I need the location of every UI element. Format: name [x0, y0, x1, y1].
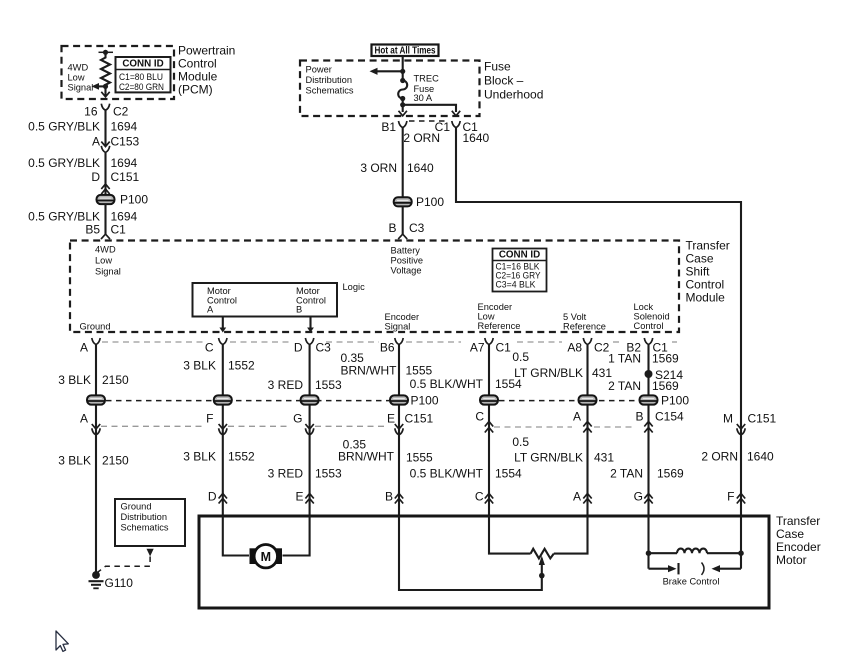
node G C151 (arrow down): [293, 412, 314, 435]
svg-text:1569: 1569: [657, 467, 684, 481]
svg-text:BRN/WHT: BRN/WHT: [338, 450, 395, 464]
Hot at All Times box: [372, 45, 439, 57]
svg-text:F: F: [727, 490, 734, 504]
wire A ground: [95, 345, 97, 573]
pin C entry: [475, 490, 493, 504]
wire: fuse output branch: [399, 99, 461, 116]
label: Battery Positive Voltage: [391, 246, 424, 276]
svg-text:B1: B1: [381, 120, 396, 134]
svg-text:2150: 2150: [102, 373, 129, 387]
svg-text:D: D: [294, 341, 303, 355]
svg-text:A8: A8: [567, 341, 582, 355]
label wire B2: 1 TAN 1569: [608, 352, 679, 366]
svg-text:1554: 1554: [495, 467, 522, 481]
svg-text:Signal: Signal: [95, 267, 121, 277]
wire A8 5 volt reference: [586, 345, 588, 517]
svg-text:Battery: Battery: [391, 246, 421, 256]
fuse TREC 30A: [398, 74, 439, 104]
module dashed box: [70, 241, 679, 333]
wire E to motor: [283, 516, 310, 556]
svg-text:Motor: Motor: [207, 286, 231, 296]
svg-text:16: 16: [84, 105, 98, 119]
CONN ID box (module): C1=16 BLK / C2=16 GRY / C3=4 BLK: [493, 249, 547, 292]
pin G entry: [634, 490, 653, 504]
svg-text:Signal: Signal: [68, 83, 94, 93]
label wire A: 0.5 LT GRN/BLK 431: [512, 435, 614, 465]
node A7 / C1 (encoder low ref pin): [470, 338, 511, 355]
svg-text:0.5 GRY/BLK: 0.5 GRY/BLK: [28, 210, 100, 224]
svg-text:3 RED: 3 RED: [268, 467, 304, 481]
node A (ground pin): [80, 338, 100, 355]
CONN ID box (PCM): C1=80 BLU / C2=80 GRN: [116, 57, 171, 92]
svg-text:G110: G110: [105, 576, 134, 590]
label: Transfer Case Encoder Motor: [776, 514, 821, 567]
ground G110: [89, 571, 134, 590]
svg-text:D: D: [208, 490, 217, 504]
svg-text:3 ORN: 3 ORN: [360, 161, 397, 175]
svg-text:3 BLK: 3 BLK: [183, 450, 216, 464]
resistor R1 (PCM pull-up): [99, 50, 114, 87]
connector C1 (fork): [409, 120, 478, 134]
svg-text:B5: B5: [85, 223, 100, 237]
svg-text:Powertrain: Powertrain: [178, 44, 235, 58]
potentiometer resistor (encoder): [531, 549, 554, 559]
wire F drop: [740, 516, 742, 569]
label wire M: 2 ORN 1640: [701, 450, 774, 464]
svg-text:Schematics: Schematics: [121, 523, 169, 533]
wire: PCM output stub with down arrow: [101, 86, 109, 96]
svg-text:A: A: [80, 341, 88, 355]
svg-text:Control: Control: [178, 57, 217, 71]
svg-text:30 A: 30 A: [414, 93, 433, 103]
svg-text:CONN ID: CONN ID: [122, 59, 163, 70]
svg-text:Block –: Block –: [484, 74, 524, 88]
svg-text:C3: C3: [409, 221, 425, 235]
wire B2 lock solenoid: [647, 345, 649, 517]
grommet P100 wire A8: [579, 395, 597, 404]
svg-text:1694: 1694: [111, 156, 138, 170]
svg-text:Lock: Lock: [634, 302, 654, 312]
label wire D: 3 RED 1553: [268, 378, 342, 392]
svg-text:C151: C151: [405, 412, 434, 426]
svg-text:F: F: [206, 412, 213, 426]
node A C154 (arrow up): [573, 410, 592, 433]
svg-text:A: A: [207, 305, 214, 315]
arrow to power distribution: [370, 68, 403, 75]
svg-text:Module: Module: [686, 291, 726, 305]
label: Encoder Low Reference: [478, 302, 521, 331]
grommet P100 wire B2: [640, 394, 690, 408]
svg-text:B: B: [635, 410, 643, 424]
Powertrain Control Module dashed box: [62, 46, 175, 99]
pin D entry: [208, 490, 227, 504]
svg-text:1553: 1553: [315, 378, 342, 392]
svg-text:Positive: Positive: [391, 256, 424, 266]
svg-text:0.5 BLK/WHT: 0.5 BLK/WHT: [410, 467, 484, 481]
svg-text:C: C: [475, 490, 484, 504]
grommet P100 wire B6: [390, 394, 439, 408]
svg-text:431: 431: [592, 366, 612, 380]
svg-text:C151: C151: [748, 412, 777, 426]
svg-text:0.5 GRY/BLK: 0.5 GRY/BLK: [28, 156, 100, 170]
svg-text:1552: 1552: [228, 450, 255, 464]
svg-text:3 BLK: 3 BLK: [58, 373, 91, 387]
svg-text:Signal: Signal: [385, 322, 411, 332]
svg-text:B6: B6: [380, 341, 395, 355]
svg-text:P100: P100: [120, 193, 148, 207]
svg-text:1553: 1553: [315, 467, 342, 481]
svg-text:A: A: [80, 412, 88, 426]
connector B1 (fork): [381, 120, 407, 134]
svg-text:TREC: TREC: [414, 74, 440, 84]
svg-text:Reference: Reference: [563, 322, 606, 332]
connector face dashed link (gray) C151: [101, 425, 384, 427]
motor M1: [250, 545, 283, 568]
wire 1640 3 ORN (B1 to P100): [360, 128, 434, 198]
label wire G2: 2 TAN 1569: [610, 467, 684, 481]
connector C1 pin B5 (module entry): [101, 234, 110, 239]
svg-text:C2=80 GRN: C2=80 GRN: [119, 82, 164, 92]
brake solenoid coil L1: [646, 549, 744, 556]
svg-text:Distribution: Distribution: [306, 75, 353, 85]
label: 5 Volt Reference: [563, 312, 606, 332]
svg-text:1694: 1694: [111, 120, 138, 134]
svg-text:3 BLK: 3 BLK: [183, 359, 216, 373]
svg-text:Transfer: Transfer: [776, 514, 820, 528]
grommet P100 wire A: [87, 395, 105, 404]
svg-text:C1: C1: [496, 341, 512, 355]
svg-text:1640: 1640: [407, 161, 434, 175]
label: Lock Solenoid Control: [634, 302, 670, 331]
svg-text:Hot at All Times: Hot at All Times: [375, 46, 436, 57]
svg-text:Reference: Reference: [478, 321, 521, 331]
wire B to wiper: [399, 516, 545, 590]
svg-text:1640: 1640: [747, 450, 774, 464]
svg-text:Schematics: Schematics: [306, 86, 354, 96]
svg-text:1569: 1569: [652, 352, 679, 366]
label: Brake Control: [663, 577, 720, 587]
logic box: Motor Control A / B: [193, 283, 338, 317]
svg-text:B: B: [388, 221, 396, 235]
svg-text:Ground: Ground: [121, 502, 152, 512]
harness dashed link P100 right: [489, 400, 649, 402]
svg-text:C1=80 BLU: C1=80 BLU: [119, 72, 163, 82]
connector face dashed link (gray): [102, 341, 677, 343]
svg-text:2 TAN: 2 TAN: [610, 467, 643, 481]
wire M (2 ORN) lower segment: [740, 425, 742, 516]
wire to module pin B C3: [388, 206, 424, 235]
grommet P100 wire D: [301, 395, 319, 404]
label wire C: 3 BLK 1552: [183, 359, 255, 373]
wire D to motor: [223, 516, 249, 556]
label: Power Distribution Schematics: [306, 65, 354, 96]
svg-text:A7: A7: [470, 341, 485, 355]
svg-text:C151: C151: [111, 170, 140, 184]
node F C151 (arrow down): [206, 412, 227, 435]
svg-text:Ground: Ground: [80, 322, 111, 332]
label: 4WD Low Signal (PCM): [68, 63, 94, 93]
svg-text:Control: Control: [686, 278, 725, 292]
reference arrow to ground schematics: [97, 549, 153, 573]
pin B entry: [385, 490, 403, 504]
svg-text:A: A: [92, 135, 100, 149]
svg-text:C3: C3: [316, 341, 332, 355]
svg-text:BRN/WHT: BRN/WHT: [341, 364, 398, 378]
svg-text:C153: C153: [111, 135, 140, 149]
svg-text:Low: Low: [95, 256, 112, 266]
node M C151 (arrow down): [723, 412, 777, 435]
node A C151 (arrow down): [80, 412, 100, 435]
svg-text:Underhood: Underhood: [484, 88, 543, 102]
svg-text:P100: P100: [416, 195, 444, 209]
label wire A7: 0.5 BLK/WHT 1554: [410, 377, 522, 391]
svg-text:Solenoid: Solenoid: [634, 312, 670, 322]
node: signal junction + arrow to 4WD Low Signal: [92, 83, 109, 90]
wire: feed from Hot at All Times: [400, 56, 405, 81]
svg-text:Motor: Motor: [776, 553, 807, 567]
svg-text:2 ORN: 2 ORN: [701, 450, 738, 464]
svg-text:G: G: [293, 412, 302, 426]
Ground Distribution Schematics box: [115, 499, 185, 546]
svg-text:C2: C2: [113, 105, 129, 119]
svg-text:1555: 1555: [406, 451, 433, 465]
label: Ground: [80, 322, 111, 332]
svg-text:1694: 1694: [111, 210, 138, 224]
svg-text:E: E: [387, 412, 395, 426]
label wire A: 3 BLK 2150: [58, 454, 129, 468]
connector C153 pin A (arrow through): [92, 135, 140, 153]
svg-text:CONN ID: CONN ID: [499, 250, 540, 261]
svg-text:Distribution: Distribution: [121, 512, 168, 522]
svg-text:G: G: [634, 490, 643, 504]
Fuse Block dashed box: [300, 61, 480, 117]
wire C to potentiometer: [489, 516, 531, 554]
node A8 / C2 (5V ref pin): [567, 338, 609, 355]
mouse cursor: [56, 631, 68, 651]
label wire A: 3 BLK 2150: [58, 373, 129, 387]
label: Fuse Block - Underhood: [484, 60, 543, 102]
arrow: motor control A output: [219, 317, 226, 333]
svg-text:Low: Low: [478, 312, 495, 322]
svg-text:M: M: [261, 550, 271, 564]
wire 1640 2 ORN (C1 around right side): [403, 128, 741, 426]
wire 1694 GRY/BLK segment 2: [28, 152, 139, 195]
svg-text:LT GRN/BLK: LT GRN/BLK: [514, 366, 583, 380]
node D / C3 (motor control B pin): [294, 338, 331, 355]
svg-text:C154: C154: [655, 410, 684, 424]
label: Logic: [343, 282, 366, 292]
svg-text:1640: 1640: [463, 131, 490, 145]
svg-text:P100: P100: [661, 394, 689, 408]
brake control contacts: [649, 563, 742, 575]
label wire A8: 0.5 LT GRN/BLK 431: [512, 350, 612, 380]
label wire F: 3 BLK 1552: [183, 450, 255, 464]
svg-text:Voltage: Voltage: [391, 266, 422, 276]
svg-text:LT GRN/BLK: LT GRN/BLK: [514, 451, 583, 465]
svg-text:2150: 2150: [102, 454, 129, 468]
svg-text:Case: Case: [686, 252, 714, 266]
svg-text:4WD: 4WD: [68, 63, 89, 73]
node B2 / C1 (lock solenoid pin): [626, 338, 668, 355]
label wire B2: 2 TAN 1569: [608, 379, 679, 393]
grommet P100 wire A7: [480, 395, 498, 404]
svg-text:1552: 1552: [228, 359, 255, 373]
svg-text:(PCM): (PCM): [178, 83, 213, 97]
wire A7 encoder low reference: [488, 345, 490, 517]
node E C151 (arrow down): [387, 412, 434, 435]
splice S214: [645, 368, 684, 382]
node C C154 (arrow up): [475, 410, 493, 433]
svg-text:Encoder: Encoder: [478, 302, 513, 312]
svg-text:C: C: [475, 410, 484, 424]
svg-text:0.5 GRY/BLK: 0.5 GRY/BLK: [28, 120, 100, 134]
pin A entry: [573, 490, 592, 504]
grommet P100 wire C: [214, 395, 232, 404]
svg-text:431: 431: [594, 451, 614, 465]
svg-text:0.5: 0.5: [512, 435, 529, 449]
wire B6 encoder signal: [398, 345, 400, 517]
label wire G: 3 RED 1553: [268, 467, 342, 481]
label: Powertrain Control Module (PCM): [178, 44, 235, 97]
wire 1694 GRY/BLK segment 3: [28, 204, 137, 237]
svg-text:4WD: 4WD: [95, 245, 116, 255]
svg-text:Case: Case: [776, 527, 804, 541]
grommet P100 (left): [97, 184, 149, 207]
svg-text:0.5 BLK/WHT: 0.5 BLK/WHT: [410, 377, 484, 391]
pin E entry: [295, 490, 313, 504]
svg-text:3 BLK: 3 BLK: [58, 454, 91, 468]
label wire E: 0.35 BRN/WHT 1555: [338, 438, 433, 465]
svg-text:Shift: Shift: [686, 265, 711, 279]
svg-text:Power: Power: [306, 65, 332, 75]
svg-text:Control: Control: [634, 321, 664, 331]
svg-text:5 Volt: 5 Volt: [563, 312, 587, 322]
svg-text:1 TAN: 1 TAN: [608, 352, 641, 366]
svg-text:Motor: Motor: [296, 286, 320, 296]
svg-text:C: C: [205, 341, 214, 355]
connector C3 pin B (module entry): [398, 234, 407, 239]
label: Encoder Signal: [385, 312, 420, 332]
svg-text:B: B: [296, 305, 302, 315]
wire D motor control B: [309, 345, 311, 517]
svg-text:2 TAN: 2 TAN: [608, 379, 641, 393]
svg-text:3 RED: 3 RED: [268, 378, 304, 392]
svg-text:P100: P100: [411, 394, 439, 408]
svg-text:E: E: [295, 490, 303, 504]
label: Transfer Case Shift Control Module: [686, 239, 730, 305]
svg-text:Logic: Logic: [343, 282, 366, 292]
svg-text:A: A: [573, 410, 581, 424]
svg-text:Low: Low: [68, 73, 85, 83]
svg-text:Fuse: Fuse: [484, 60, 511, 74]
svg-text:2 ORN: 2 ORN: [403, 131, 440, 145]
svg-text:B: B: [385, 490, 393, 504]
svg-text:1569: 1569: [652, 379, 679, 393]
wire C motor control A: [222, 345, 224, 517]
wire G drop: [647, 516, 649, 569]
arrow: motor control B output: [307, 317, 314, 333]
node B C154 (arrow up): [635, 410, 684, 433]
pin F entry: [727, 490, 745, 504]
svg-text:Module: Module: [178, 70, 218, 84]
connector face dashed link (gray) C154: [494, 426, 633, 428]
svg-text:1555: 1555: [406, 364, 433, 378]
svg-text:C1: C1: [111, 223, 127, 237]
label wire B6: 0.35 BRN/WHT 1555: [341, 351, 433, 378]
connector C2 pin 16 (fork): [84, 104, 129, 119]
grommet P100 (fuse feed): [394, 195, 445, 209]
wire 1694 GRY/BLK segment 1: [28, 110, 137, 146]
svg-text:Encoder: Encoder: [385, 312, 420, 322]
label: 4WD Low Signal (module): [95, 245, 121, 277]
harness dashed link P100 left: [96, 400, 399, 402]
label wire C: 0.5 BLK/WHT 1554: [410, 467, 522, 481]
node B6 (encoder signal pin): [380, 338, 403, 355]
node C (motor control A pin): [205, 338, 227, 355]
svg-text:A: A: [573, 490, 581, 504]
svg-text:0.5: 0.5: [512, 350, 529, 364]
wire A to potentiometer: [554, 516, 588, 554]
svg-text:M: M: [723, 412, 733, 426]
svg-text:Brake Control: Brake Control: [663, 577, 720, 587]
svg-text:C3=4 BLK: C3=4 BLK: [496, 280, 537, 290]
svg-text:D: D: [91, 170, 100, 184]
svg-text:Encoder: Encoder: [776, 540, 821, 554]
svg-text:Transfer: Transfer: [686, 239, 730, 253]
